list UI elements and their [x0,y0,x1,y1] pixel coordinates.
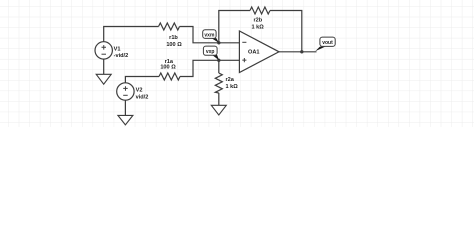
junction dot vxp [217,59,220,62]
op-amp OA1 [239,31,279,73]
svg-text:vid/2: vid/2 [136,94,149,100]
ground under V1 [96,74,111,84]
wire r1a to op-amp plus input [180,60,239,76]
wire V1 to r1b [104,27,159,42]
resistor R1B labels [166,35,182,48]
resistor R2A zigzag vertical [215,73,222,93]
junction dot vxm [217,41,220,44]
wire V1 to ground [103,59,105,74]
wire r1b to op-amp minus input [180,27,240,43]
resistor R2A labels [226,77,239,90]
voltage source V1 [95,42,112,59]
resistor R1A zigzag [159,73,180,80]
wire r2a top lead [218,60,220,73]
svg-text:V1: V1 [114,46,121,52]
wire output [279,51,317,53]
ground under V2 [118,115,133,125]
voltage source V2 [117,83,134,100]
svg-text:r1b: r1b [169,35,178,41]
wire V2 to ground [124,100,126,115]
wire feedback vertical left [219,11,250,43]
svg-text:OA1: OA1 [248,49,260,55]
svg-text:V2: V2 [136,87,143,93]
svg-text:r2a: r2a [226,77,235,83]
svg-text:1 kΩ: 1 kΩ [226,84,239,90]
svg-text:vout: vout [322,40,333,46]
resistor R1A labels [160,59,176,71]
wire r2b to output [270,11,302,52]
svg-text:-vid/2: -vid/2 [114,53,129,59]
wire r2a bottom lead [218,93,220,105]
svg-text:r2b: r2b [253,17,262,23]
node tag vxm [203,30,219,43]
node tag vout [315,37,335,51]
node tag vxp [203,46,219,60]
resistor R1B zigzag [159,23,180,30]
svg-text:100 Ω: 100 Ω [160,65,176,71]
ground under R2A [211,105,226,115]
svg-text:100 Ω: 100 Ω [166,42,182,48]
svg-text:vxp: vxp [206,49,215,55]
svg-text:vxm: vxm [204,32,215,38]
resistor R2B zigzag [250,7,270,14]
junction dot at output node [300,50,303,53]
resistor R2B labels [251,17,264,30]
svg-text:1 kΩ: 1 kΩ [251,24,264,30]
wire V2 to r1a [125,77,159,83]
